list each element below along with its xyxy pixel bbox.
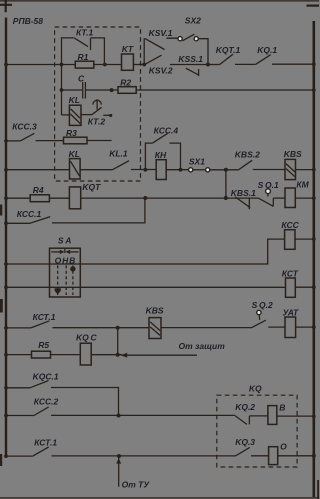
node KCC.1 rung left bus bbox=[4, 221, 8, 225]
wire KBS.2 to KBS coil bbox=[253, 169, 285, 171]
wire KL.1 to KH group bbox=[131, 169, 156, 171]
svg-text:От ТУ: От ТУ bbox=[122, 480, 151, 490]
wire UAT coil to right bus bbox=[296, 326, 314, 328]
wire SQ.2 to UAT coil bbox=[268, 326, 285, 328]
node KQC.1 riser junction on KCC.2 rung bbox=[117, 414, 121, 418]
wire KCC.3 rung left bbox=[6, 140, 20, 142]
wire R2 to right bus bbox=[136, 89, 314, 91]
wire KQC riser to UAT rung bbox=[117, 328, 119, 355]
svg-text:KQ.2: KQ.2 bbox=[235, 402, 255, 412]
svg-text:KQ: KQ bbox=[249, 384, 262, 394]
wire KQC.1 rung left bbox=[6, 387, 30, 389]
node SA rung A left bus bbox=[4, 262, 8, 266]
contact KL.1 bbox=[113, 161, 130, 170]
contact KQC.1 bbox=[30, 381, 48, 388]
contact KSS.1 (NC below rung) bbox=[186, 68, 199, 76]
wire R4 rung left bbox=[6, 197, 30, 199]
wire SQ.1 to KM coil bbox=[273, 197, 285, 199]
test link SX2 terminal 1 bbox=[178, 37, 182, 41]
svg-text:KSV.2: KSV.2 bbox=[149, 66, 173, 76]
node SX2 drop on rung bbox=[206, 63, 210, 67]
svg-text:КСС.4: КСС.4 bbox=[154, 125, 179, 135]
svg-text:KQ.3: KQ.3 bbox=[235, 437, 255, 447]
relay coil KCC bbox=[285, 230, 295, 250]
wire KCC.1 rung left bbox=[6, 222, 30, 224]
svg-text:О: О bbox=[280, 441, 287, 451]
node R2 line right bus bbox=[312, 88, 316, 92]
relay coil KQC bbox=[80, 343, 91, 365]
minus bus symbol bbox=[307, 4, 320, 6]
svg-text:SX2: SX2 bbox=[185, 16, 201, 26]
contact KQT.1 bbox=[220, 54, 233, 64]
dashed box KQ group bbox=[217, 395, 297, 467]
svg-text:KBS: KBS bbox=[284, 149, 302, 159]
wire coil O to right bus bbox=[278, 455, 314, 457]
left edge scan mark 1 bbox=[0, 205, 2, 216]
wire KQT to KM rung bbox=[81, 197, 259, 199]
wire UAT rung left bbox=[6, 327, 31, 329]
node KT.1 branch left bbox=[60, 63, 64, 67]
node KBS right bus bbox=[312, 168, 316, 172]
branch KCC.4 bypass left riser bbox=[145, 143, 152, 170]
node KM drop junction bbox=[224, 168, 228, 172]
wire KT coil to KSV node bbox=[133, 64, 146, 66]
relay coil KBS (voltage) bbox=[285, 159, 296, 179]
svg-text:КН: КН bbox=[155, 150, 167, 160]
wire KM coil to right bus bbox=[295, 197, 314, 199]
contact KSV.2 (blade on main rung) bbox=[145, 55, 162, 64]
svg-text:В: В bbox=[279, 403, 285, 413]
svg-text:KQT.1: KQT.1 bbox=[216, 45, 241, 55]
capacitor C bbox=[83, 82, 86, 99]
svg-text:KBS.1: KBS.1 bbox=[231, 188, 256, 198]
contact KCT.1 (bottom) bbox=[33, 447, 49, 456]
svg-text:КСТ: КСТ bbox=[282, 269, 299, 279]
node KM right bus bbox=[312, 196, 316, 200]
wire SA rung B bbox=[6, 286, 286, 288]
svg-text:R3: R3 bbox=[66, 128, 77, 138]
right edge scan mark bbox=[317, 480, 319, 499]
wire R3 right stub bbox=[87, 140, 112, 142]
wire SX1 to KBS.2 bbox=[210, 169, 239, 171]
resistor R4 bbox=[30, 195, 49, 202]
node KH branch right bbox=[179, 168, 183, 172]
node Ot TU junction bbox=[117, 454, 121, 458]
wire R5 rung left bbox=[6, 354, 32, 356]
wire rung1 to KQT.1 bbox=[208, 64, 220, 66]
node coil O right bus bbox=[312, 454, 316, 458]
relay coil KH bbox=[156, 160, 166, 180]
left edge scan mark 2 bbox=[0, 299, 3, 313]
node KL2 rung left bus bbox=[4, 168, 8, 172]
wire KBS coil to right bus bbox=[296, 169, 314, 171]
plus bus symbol bbox=[0, 0, 12, 12]
resistor R1 bbox=[75, 61, 94, 68]
contact KCT.1 (upper) bbox=[31, 321, 50, 328]
switch SA column H bbox=[65, 265, 67, 295]
svg-text:РПВ-58: РПВ-58 bbox=[13, 16, 43, 26]
test link SX1 terminal 2 bbox=[206, 168, 210, 172]
contactor coil KM bbox=[285, 188, 295, 208]
node KQC riser junction bbox=[116, 326, 120, 330]
wire SX2 to drop bbox=[198, 39, 208, 65]
contact KT.1 (parallel branch over R1) bbox=[62, 38, 105, 65]
relay coil KL (upper) bbox=[69, 105, 81, 125]
test link SX1 link wire bbox=[193, 169, 206, 171]
contact KCC.2 bbox=[34, 407, 49, 416]
right bus (-) bbox=[312, 21, 315, 497]
wire KCC coil to right bus bbox=[295, 238, 314, 240]
wire KCT.1 bottom rung left bbox=[6, 455, 33, 457]
svg-text:КСТ.1: КСТ.1 bbox=[34, 437, 57, 447]
wire KL2 to KL.1 bbox=[80, 169, 112, 171]
svg-text:R1: R1 bbox=[78, 52, 89, 62]
svg-text:S Q.1: S Q.1 bbox=[258, 180, 279, 190]
node C-R2 junction bbox=[110, 88, 114, 92]
svg-text:КМ: КМ bbox=[296, 179, 309, 189]
svg-text:KSS.1: KSS.1 bbox=[178, 54, 203, 64]
svg-text:R2: R2 bbox=[120, 77, 131, 87]
switch SA closed dot on B bbox=[70, 266, 75, 271]
test link SX2 terminal 2 bbox=[194, 37, 198, 41]
contact KCC.3 bbox=[20, 133, 34, 141]
node R4 rung left bus bbox=[4, 196, 8, 200]
wire KL1 branch bbox=[62, 114, 70, 116]
control switch SA box bbox=[50, 248, 81, 297]
svg-text:KQC.1: KQC.1 bbox=[33, 371, 59, 381]
svg-text:KQ.1: KQ.1 bbox=[257, 45, 277, 55]
node KH branch left bbox=[144, 168, 148, 172]
wire KQT.1 to KQ.1 bbox=[235, 63, 256, 65]
node SX1 drop junction bbox=[224, 196, 228, 200]
wire R4 to KQT coil bbox=[49, 197, 69, 199]
wire KCT coil to right bus bbox=[295, 286, 314, 288]
wire C branch left bbox=[62, 89, 83, 91]
svg-text:SX1: SX1 bbox=[189, 156, 205, 166]
svg-text:KBS: KBS bbox=[146, 306, 164, 316]
svg-text:ОНВ: ОНВ bbox=[55, 255, 77, 265]
svg-text:KQ C: KQ C bbox=[76, 332, 97, 342]
node UAT rung left bus bbox=[4, 326, 8, 330]
node KCC.2 rung left bus bbox=[4, 414, 8, 418]
test link SX1 terminal 1 bbox=[189, 168, 193, 172]
wire KQ.3 to coil O bbox=[251, 455, 269, 457]
node R5 rung left bus bbox=[4, 353, 8, 357]
wire coil B to right bus bbox=[277, 415, 314, 417]
node KCC.3 rung left bus bbox=[4, 139, 8, 143]
svg-text:КСС.2: КСС.2 bbox=[34, 396, 59, 406]
branch KCC.4 bypass right riser bbox=[170, 143, 181, 170]
wire KCT.1 to KBS coil bbox=[53, 327, 150, 329]
trip coil UAT bbox=[285, 317, 296, 338]
contact KQ.3 bbox=[235, 447, 249, 456]
node rung1 right bus bbox=[312, 62, 316, 66]
node KCT.1 rung left bus bbox=[4, 454, 8, 458]
contact KQ.1 bbox=[256, 55, 271, 65]
svg-text:KL: KL bbox=[69, 95, 80, 105]
contact KT.2 (time delay) bbox=[92, 99, 102, 114]
switch SA column B bbox=[72, 265, 74, 295]
svg-text:КТ.2: КТ.2 bbox=[88, 117, 106, 127]
wire rung1 KSV.2 to SX2 node bbox=[170, 64, 208, 66]
switch SA handle arrows bbox=[51, 248, 78, 254]
wire C to R2 bbox=[86, 89, 118, 91]
svg-text:KBS.2: KBS.2 bbox=[235, 149, 260, 159]
switch SA marker on O bbox=[55, 288, 61, 294]
contact KBS.1 (NC below rung) bbox=[235, 197, 250, 209]
contact KCC.1 bbox=[30, 217, 50, 224]
node coil B right bus bbox=[312, 414, 316, 418]
wire KL to KT.2 bbox=[81, 114, 92, 116]
node R1 right bbox=[103, 63, 107, 67]
left edge scan mark 3 bbox=[0, 454, 2, 466]
svg-text:S A: S A bbox=[58, 236, 72, 246]
wire C branch riser bbox=[61, 65, 63, 116]
svg-text:КСС.3: КСС.3 bbox=[12, 121, 37, 131]
svg-text:КСС.1: КСС.1 bbox=[17, 209, 42, 219]
svg-text:УАТ: УАТ bbox=[283, 308, 299, 318]
svg-text:КСС: КСС bbox=[281, 220, 299, 230]
wire rung1 left: bus to R1 bbox=[6, 64, 75, 66]
svg-text:R5: R5 bbox=[38, 340, 49, 350]
relay coil KBS (current) bbox=[149, 318, 161, 339]
limit switch contact SQ.1 bbox=[259, 189, 274, 207]
node Ot zashchit junction bbox=[116, 353, 120, 357]
relay coil KQT bbox=[69, 187, 80, 209]
wire KCC.1 to riser bbox=[52, 198, 145, 223]
wire KQ.2 to coil B bbox=[249, 415, 268, 417]
wire KH to SX1 bbox=[166, 169, 188, 171]
wire Ot zashchit with arrow bbox=[120, 353, 197, 358]
resistor R3 bbox=[64, 137, 88, 144]
wire KQC.1 to riser bbox=[51, 388, 119, 416]
relay coil KT bbox=[122, 54, 134, 70]
opening coil O bbox=[269, 447, 278, 465]
svg-text:KSV.1: KSV.1 bbox=[149, 28, 173, 38]
wire KCT.1 to KQ.3 bbox=[52, 455, 236, 457]
svg-text:От защит: От защит bbox=[179, 341, 226, 351]
node KQC.1 rung left bus bbox=[4, 386, 8, 390]
closing coil B bbox=[268, 406, 277, 425]
svg-text:R4: R4 bbox=[33, 185, 44, 195]
contact KQ.2 (NC below rung) bbox=[235, 416, 249, 425]
node SA rung B left bus bbox=[4, 285, 8, 289]
wire Ot TU riser with arrow bbox=[116, 456, 121, 487]
wire KCC.2 rung left bbox=[6, 415, 34, 417]
svg-text:КСТ.1: КСТ.1 bbox=[33, 312, 56, 322]
node KCC.1 riser junction bbox=[143, 196, 147, 200]
svg-text:S Q.2: S Q.2 bbox=[252, 300, 273, 310]
switch SA column O bbox=[57, 265, 59, 295]
node C branch top bbox=[60, 88, 64, 92]
node KCC right bus bbox=[312, 237, 316, 241]
wire KSV.1 branch riser bbox=[143, 38, 145, 64]
svg-text:KQT: KQT bbox=[82, 182, 101, 192]
wire R5 to KQC coil bbox=[51, 354, 81, 356]
test link SX2 blade bbox=[182, 34, 194, 41]
node rung1 left bus bbox=[4, 63, 8, 67]
relay coil KL (lower) bbox=[70, 159, 81, 179]
wire KQC coil to node bbox=[91, 354, 122, 356]
svg-text:KL: KL bbox=[69, 149, 80, 159]
node KSV branch bbox=[142, 63, 146, 67]
bottom page border bbox=[0, 497, 319, 499]
resistor R5 bbox=[32, 351, 51, 358]
node KCT right bus bbox=[312, 285, 316, 289]
svg-text:KL.1: KL.1 bbox=[109, 148, 128, 158]
wire KBS coil to SQ.2 bbox=[161, 327, 252, 329]
contact KSV.1 bbox=[145, 38, 178, 49]
wire SX1 drop to KM rung bbox=[225, 170, 227, 198]
dashed box KT/KL timing group bbox=[55, 27, 141, 181]
node UAT right bus bbox=[312, 325, 316, 329]
svg-text:C: C bbox=[78, 73, 85, 83]
resistor R2 bbox=[118, 87, 136, 94]
wire KL2 rung left bbox=[6, 169, 70, 171]
left bus (+) bbox=[5, 18, 7, 457]
limit switch contact SQ.2 bbox=[252, 310, 266, 327]
wire KQ.1 to right bus bbox=[272, 63, 314, 65]
contact KCC.4 bbox=[153, 133, 168, 143]
svg-text:КТ.1: КТ.1 bbox=[76, 28, 94, 38]
wire SA rung A bbox=[6, 239, 285, 264]
svg-text:KT: KT bbox=[122, 44, 134, 54]
contact KBS.2 bbox=[239, 160, 253, 170]
wire KCC.3 to R3 bbox=[36, 140, 64, 142]
wire KCC.2 to KQ.2 bbox=[51, 414, 235, 416]
top page border bbox=[0, 0, 319, 2]
wire R1 to KT coil bbox=[94, 64, 122, 66]
wire KT.2 right with terminal bbox=[103, 114, 112, 117]
relay coil KCT bbox=[286, 278, 296, 297]
